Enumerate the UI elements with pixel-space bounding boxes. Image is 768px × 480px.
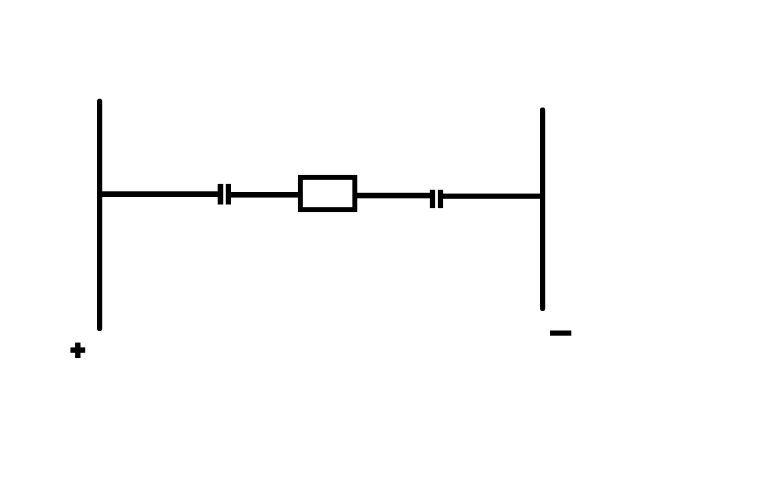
plus polarity label: [70, 343, 85, 358]
wire: capacitor C2 to right rail: [442, 194, 543, 199]
capacitor C2 right plate: [438, 190, 443, 208]
capacitor C1 right plate: [226, 184, 231, 205]
wire: capacitor C1 to resistor R1: [230, 192, 300, 198]
wire: resistor R1 to capacitor C2: [355, 193, 431, 199]
resistor R1 (box symbol): [300, 177, 354, 209]
positive battery rail (left vertical bus): [97, 99, 102, 331]
capacitor C1 left plate: [218, 184, 224, 205]
wire: left rail to capacitor C1: [98, 191, 219, 197]
negative battery rail (right vertical bus): [540, 108, 545, 312]
capacitor C2 left plate: [430, 190, 435, 208]
minus polarity label: [550, 331, 571, 336]
